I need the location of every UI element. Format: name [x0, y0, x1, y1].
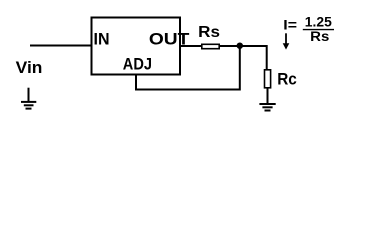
svg-text:Vin: Vin: [16, 58, 43, 77]
svg-text:IN: IN: [94, 30, 110, 49]
svg-text:Rs: Rs: [198, 24, 220, 41]
svg-text:Rs: Rs: [310, 29, 329, 44]
svg-text:I=: I=: [283, 18, 297, 33]
svg-text:Rc: Rc: [277, 69, 297, 88]
svg-text:ADJ: ADJ: [123, 55, 152, 74]
svg-text:1.25: 1.25: [305, 15, 332, 30]
